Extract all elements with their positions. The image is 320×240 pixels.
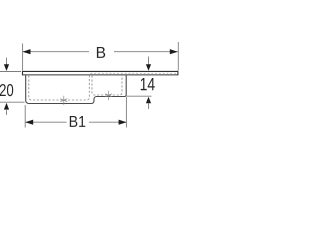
label 14 [141, 78, 155, 90]
slab left end cap [22, 71, 24, 76]
dimension B right arrow [170, 49, 178, 54]
drain marker right (shallow section outlet) [105, 91, 112, 100]
dimension B left arrow [23, 49, 31, 54]
label B [97, 47, 105, 58]
basin outer outline [26, 75, 127, 103]
slab right end cap [177, 71, 179, 76]
slab top line [22, 70, 178, 72]
dimension B left extension line [22, 44, 24, 71]
basin inner hidden left wall dashed [29, 76, 90, 100]
dimension B1 right extension line [125, 97, 127, 128]
dimension B1 left arrow [25, 120, 33, 125]
dimension B right extension line [177, 42, 179, 70]
slab hidden mid dashed line [91, 72, 177, 74]
dimension B1 left extension line [24, 105, 26, 128]
dimension 14 bottom extension line [127, 95, 152, 97]
dimension B line [23, 51, 178, 53]
basin inner hidden shallow section dashed [92, 76, 122, 95]
dimension 20 bottom extension line [0, 101, 25, 103]
dimension B1 right arrow [119, 120, 127, 125]
label B1 [70, 116, 86, 127]
dimension 20 up arrow [4, 103, 9, 110]
dimension 14 down arrow [148, 57, 150, 66]
label 20 [0, 84, 13, 96]
dimension 14 up arrow [146, 97, 151, 104]
dimension 20 down arrow [6, 58, 8, 66]
slab bottom line [22, 74, 178, 76]
dimension 20 top extension line [0, 71, 21, 73]
dimension B1 line [25, 121, 126, 123]
drain marker left (deep basin outlet) [60, 96, 67, 105]
